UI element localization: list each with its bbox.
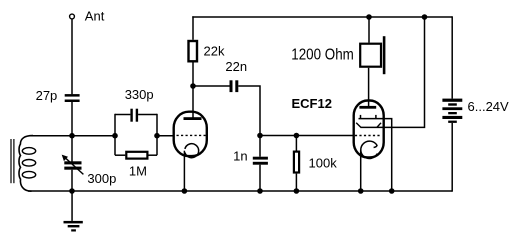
junction 100k top (294, 133, 300, 139)
resistor 1M (115, 152, 157, 159)
capacitor 330p (115, 109, 157, 122)
junction leak right (154, 133, 160, 139)
svg-text:1n: 1n (233, 149, 247, 164)
wire leak branch left (114, 114, 116, 155)
wire triode anode up (192, 86, 194, 118)
wire anode node to 22n (193, 85, 230, 87)
antenna terminal (70, 14, 75, 19)
resistor 22k (189, 41, 198, 61)
wire leak to triode grid (157, 135, 174, 137)
wire 22k lower lead (192, 63, 194, 87)
wire 22k upper lead (192, 16, 194, 40)
junction ground node (69, 188, 75, 194)
junction triode anode node (190, 83, 196, 89)
battery 6...24V (442, 16, 462, 191)
wire 22n to grid node (238, 86, 260, 136)
wire node to pentode grid (260, 135, 354, 137)
junction 100k bottom (294, 188, 300, 194)
variable capacitor 300p (62, 155, 84, 175)
junction triode cathode bottom (182, 188, 188, 194)
wire pentode anode up (368, 68, 370, 107)
junction 22n node (257, 133, 263, 139)
junction speaker top (366, 14, 372, 20)
capacitor 1n (253, 136, 268, 192)
svg-text:330p: 330p (125, 87, 154, 102)
wire suppressor to top rail (383, 17, 425, 127)
ground (64, 191, 83, 232)
wire pentode cathode down (360, 150, 362, 191)
top rail wire (192, 16, 452, 18)
svg-text:6...24V: 6...24V (468, 99, 510, 114)
junction leak left (112, 133, 118, 139)
svg-text:Ant: Ant (85, 9, 105, 24)
junction pentode cathode bottom (358, 188, 364, 194)
svg-text:1200 Ohm: 1200 Ohm (291, 47, 354, 64)
junction antenna grid node (69, 133, 75, 139)
resistor 100k (294, 136, 299, 192)
wire 27p to grid node (71, 102, 73, 136)
speaker 1200 Ohm (360, 17, 385, 74)
junction 1n bottom (257, 188, 263, 194)
svg-text:ECF12: ECF12 (292, 96, 332, 111)
tube V1 triode ECF12 (174, 112, 207, 158)
wire antenna to 27p (71, 19, 73, 94)
wire coil top to leak node (30, 135, 115, 137)
wire triode cathode down (183, 151, 185, 191)
capacitor 22n (230, 80, 239, 92)
wire screen grid down (383, 119, 392, 191)
junction screen bottom (389, 188, 395, 194)
capacitor 27p (65, 94, 80, 102)
svg-text:22k: 22k (204, 43, 225, 58)
bottom rail wire (28, 190, 452, 192)
wire 300p to bottom rail (71, 170, 73, 191)
svg-text:27p: 27p (36, 88, 58, 103)
svg-text:100k: 100k (309, 156, 338, 171)
tube V2 pentode ECF12 (354, 101, 384, 159)
inductor L1 (11, 136, 36, 192)
svg-text:1M: 1M (129, 164, 147, 179)
junction suppressor rail (422, 14, 428, 20)
wire grid node to 300p (71, 136, 73, 162)
svg-text:22n: 22n (225, 59, 247, 74)
wire leak branch right (156, 114, 158, 155)
svg-text:300p: 300p (87, 171, 116, 186)
